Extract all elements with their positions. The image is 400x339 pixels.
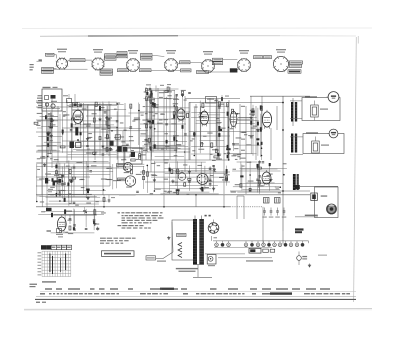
tube V1 envelope ECH81 <box>73 110 83 123</box>
dashed rail to power block <box>230 206 263 208</box>
speaker circle 2 <box>329 129 338 138</box>
resistor in lamp row <box>263 249 269 252</box>
speaker 1 label <box>305 96 317 97</box>
tube V5 envelope EL84 <box>262 112 271 127</box>
tuner inner wire <box>43 108 60 110</box>
page bottom edge <box>24 308 372 311</box>
table caption <box>42 281 56 282</box>
thin rule <box>40 291 356 293</box>
speaker circle 1 <box>328 92 339 103</box>
value box V7 lower <box>288 70 301 73</box>
switch contact <box>178 243 182 247</box>
mains transformer primary <box>193 219 197 265</box>
value box V2 right upper <box>105 54 117 57</box>
mains indicator circle <box>297 256 302 261</box>
block IF-1 <box>61 101 129 160</box>
label ECH 81 <box>57 49 67 50</box>
page top edge <box>22 27 372 30</box>
antenna stub <box>36 100 42 102</box>
dark resistor under V1 <box>75 127 78 135</box>
dark junction box left rail <box>46 208 52 211</box>
margin note left bottom <box>30 284 38 285</box>
wire x95 down <box>94 195 96 222</box>
top bus right y96 <box>250 95 310 97</box>
gedruckte schaltung box <box>102 251 135 257</box>
label EF 89 <box>93 49 103 50</box>
schematic right border <box>354 37 357 302</box>
ground bottom right <box>309 264 311 266</box>
alignment table grid <box>38 251 71 276</box>
selector label box <box>177 234 187 237</box>
mains plug label <box>146 256 156 260</box>
mains lead vertical <box>172 222 173 252</box>
inner component 2 <box>312 141 320 153</box>
DIN socket 2 <box>125 176 135 186</box>
switch contact <box>178 254 182 258</box>
ground x95 <box>94 222 96 224</box>
dark box V6 left <box>230 68 238 72</box>
tube socket V1 ECH 81 <box>57 58 68 69</box>
value box V1 left <box>46 53 55 56</box>
faint caption right <box>318 255 327 256</box>
mains lead angled <box>163 252 173 259</box>
block AF driver <box>226 105 262 163</box>
block demod <box>190 100 229 162</box>
speaker box 3 <box>315 187 339 218</box>
dark stamp text <box>295 228 304 230</box>
IF transformer boxes above V1 <box>63 94 78 107</box>
block gap IF <box>128 103 145 161</box>
wire into box3 <box>295 216 318 218</box>
terminal label column left <box>37 95 43 108</box>
tube socket bottom view <box>197 174 208 185</box>
label EL 84 <box>239 50 249 51</box>
potentiometer circle <box>178 173 186 181</box>
electrolytic cap 4 <box>283 210 286 212</box>
bus rail y207 <box>36 206 230 208</box>
value box V3 lower-left <box>118 69 129 72</box>
top border rule <box>40 35 90 37</box>
rule 3 heavy <box>35 298 356 300</box>
choke winding <box>293 174 296 190</box>
block lower mid <box>147 161 230 195</box>
dark connector box <box>295 185 300 189</box>
speaker box 1 <box>302 98 340 121</box>
value box V3 left upper <box>117 52 127 55</box>
label EM 84 <box>166 50 176 51</box>
dark component cluster b <box>76 143 82 148</box>
speaker 2 label <box>306 132 318 133</box>
block front-end left <box>34 112 62 160</box>
block gap lower <box>113 164 145 195</box>
tube socket V4 EM 84 <box>165 59 178 72</box>
dark component cluster lower-left <box>45 174 62 186</box>
tube V3 envelope EF89 <box>200 111 208 125</box>
transformer top stub <box>194 216 196 220</box>
bus rail y195 <box>36 194 310 196</box>
DIN socket 1 <box>123 162 132 171</box>
notes list <box>118 212 164 228</box>
dial lamp row <box>212 236 309 247</box>
plus mark <box>205 215 207 217</box>
terminal 1 mark <box>39 59 42 61</box>
mag ant label <box>321 195 328 196</box>
caption under box3 <box>305 215 318 216</box>
tube V6 envelope EM84 <box>262 172 271 184</box>
value box V4-V5 mid <box>180 61 191 64</box>
small parts above demod box <box>146 84 229 103</box>
value box V3 lower-right <box>140 69 152 72</box>
wire to transformer top a <box>236 196 238 219</box>
wire x263 down <box>262 207 264 245</box>
tiny label near x47 rail <box>48 189 53 190</box>
wire transformer to unit 2 <box>290 136 303 138</box>
wire vertical x189 <box>188 103 190 161</box>
B+ rail vertical <box>282 96 284 231</box>
value box V7 right upper <box>290 61 303 64</box>
tuner dark part <box>51 95 56 99</box>
boxed capacitor C-b <box>275 198 281 204</box>
electrolytic cap 2 <box>270 210 273 212</box>
switch contact <box>178 248 182 252</box>
value box V1 lower-left <box>42 68 54 71</box>
bus y102 <box>189 102 283 104</box>
long vertical wires <box>42 87 277 195</box>
label EABC 80 <box>203 51 213 52</box>
text block left-centre <box>100 238 136 244</box>
block IF-2 dense <box>141 89 191 161</box>
wire y258 <box>218 257 272 259</box>
left rail stub <box>37 127 42 129</box>
B+ down to lamp row <box>282 231 284 244</box>
left rail x42 <box>41 100 43 207</box>
footer mark <box>36 302 40 303</box>
block lower left <box>36 160 113 205</box>
transformer bottom wire <box>193 264 204 266</box>
stub to mains circle <box>298 252 300 256</box>
value box V3 right <box>141 54 153 57</box>
keyboard switch area x115-145 <box>108 128 148 164</box>
tube V2 envelope EF89 <box>177 109 185 120</box>
electrolytic cap 1 <box>263 210 266 212</box>
voltage selector disc <box>208 223 219 234</box>
label EZ 80 <box>276 49 286 50</box>
tuner trimmer a <box>45 96 49 100</box>
tube socket V7 EZ 80 <box>274 57 289 72</box>
220V label <box>302 256 307 257</box>
rule 2 <box>36 296 356 298</box>
value box V5 lower <box>197 71 209 74</box>
tuner box <box>42 89 62 111</box>
transformer caption l1 <box>176 268 198 269</box>
tuner label Nr <box>43 87 51 88</box>
bottom text row 1 <box>45 288 330 290</box>
socket 2 label <box>118 178 126 181</box>
wire V1-V2 <box>85 59 92 61</box>
value box V1 right <box>70 59 85 62</box>
socket 1 label <box>117 164 125 167</box>
value box V6 upper <box>254 56 263 59</box>
caption under lamps <box>246 260 273 261</box>
ground near selector <box>168 236 170 238</box>
electrolytic cap 3 <box>276 210 279 212</box>
tube V7 envelope lower left <box>57 217 66 231</box>
parts near lower-left tube V7 <box>51 211 72 238</box>
tube row interconnect wires <box>54 55 238 72</box>
tube socket V6 EL 84 <box>238 59 251 72</box>
tube socket V5 EABC 80 <box>202 60 215 73</box>
block lower right <box>231 160 287 194</box>
bus y131 mid <box>189 131 256 133</box>
bottom stub wire <box>193 276 212 278</box>
bottom text row 2 <box>40 292 350 294</box>
long horizontal wires <box>36 91 310 192</box>
value box V5 right upper <box>213 58 223 61</box>
speaker box 2 <box>303 134 344 154</box>
dark component cluster a <box>70 142 75 149</box>
potentiometer block <box>311 193 318 201</box>
left rail stub <box>37 145 42 147</box>
T1 top stub <box>292 98 294 102</box>
voltage selector box <box>172 220 196 260</box>
rail link wires <box>163 194 225 208</box>
speaker 3 <box>327 204 337 214</box>
tube V4 envelope EABC80 <box>230 111 237 126</box>
resistor x95 <box>94 210 96 215</box>
wire to V3 <box>126 53 129 58</box>
wire transformer to unit 1 <box>290 100 302 102</box>
lamp row lower rail <box>214 247 272 249</box>
left rail stub <box>37 162 42 164</box>
inner component 1 <box>311 105 319 117</box>
block bottom left circuits <box>38 209 106 235</box>
margin note left top <box>30 64 34 65</box>
tuner coil a <box>45 103 48 106</box>
left rail x47 <box>46 160 48 211</box>
tube socket V3 EF 89 <box>127 59 140 72</box>
left rail stub <box>37 179 42 181</box>
left rail stub <box>37 195 42 197</box>
note 25 <box>47 230 52 231</box>
small parts x100-115 y195-205 <box>103 195 115 208</box>
boxed capacitor C-a <box>264 198 270 204</box>
small box above table <box>57 229 62 233</box>
tuner coil b <box>51 104 55 108</box>
connector box with circle <box>207 255 216 265</box>
output transformer T2 primary <box>291 134 293 153</box>
output transformer T1 primary <box>291 102 293 122</box>
fuse block <box>249 248 261 253</box>
wire top of box3 <box>300 185 338 187</box>
alignment table header <box>41 245 72 249</box>
wire to transformer top b <box>243 196 245 219</box>
small box above demod <box>206 97 217 104</box>
value box V2 lower <box>100 69 113 72</box>
cap x84 <box>83 209 86 211</box>
label EF 89 <box>128 50 138 51</box>
top rule right tick <box>357 36 359 44</box>
tube socket V2 EF 89 <box>92 58 104 70</box>
wire y254 <box>205 253 245 255</box>
